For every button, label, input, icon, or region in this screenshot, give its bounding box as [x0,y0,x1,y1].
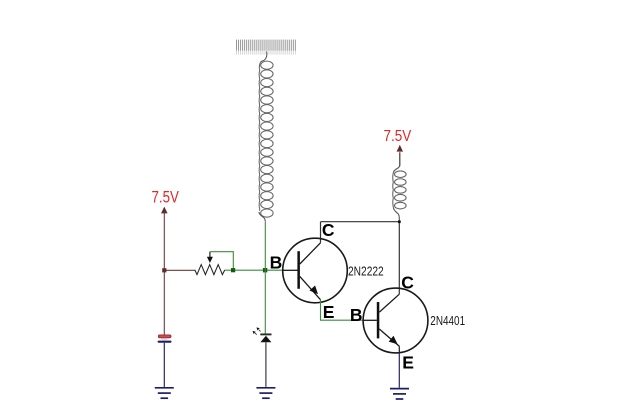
svg-text:2N4401: 2N4401 [430,314,465,328]
svg-text:2N2222: 2N2222 [348,264,384,278]
svg-text:B: B [350,305,363,325]
svg-text:B: B [270,253,283,273]
svg-text:7.5V: 7.5V [152,188,179,207]
svg-text:E: E [323,302,335,322]
svg-text:C: C [322,220,335,240]
svg-text:C: C [401,273,414,293]
svg-text:7.5V: 7.5V [384,128,412,145]
svg-text:E: E [402,352,414,372]
